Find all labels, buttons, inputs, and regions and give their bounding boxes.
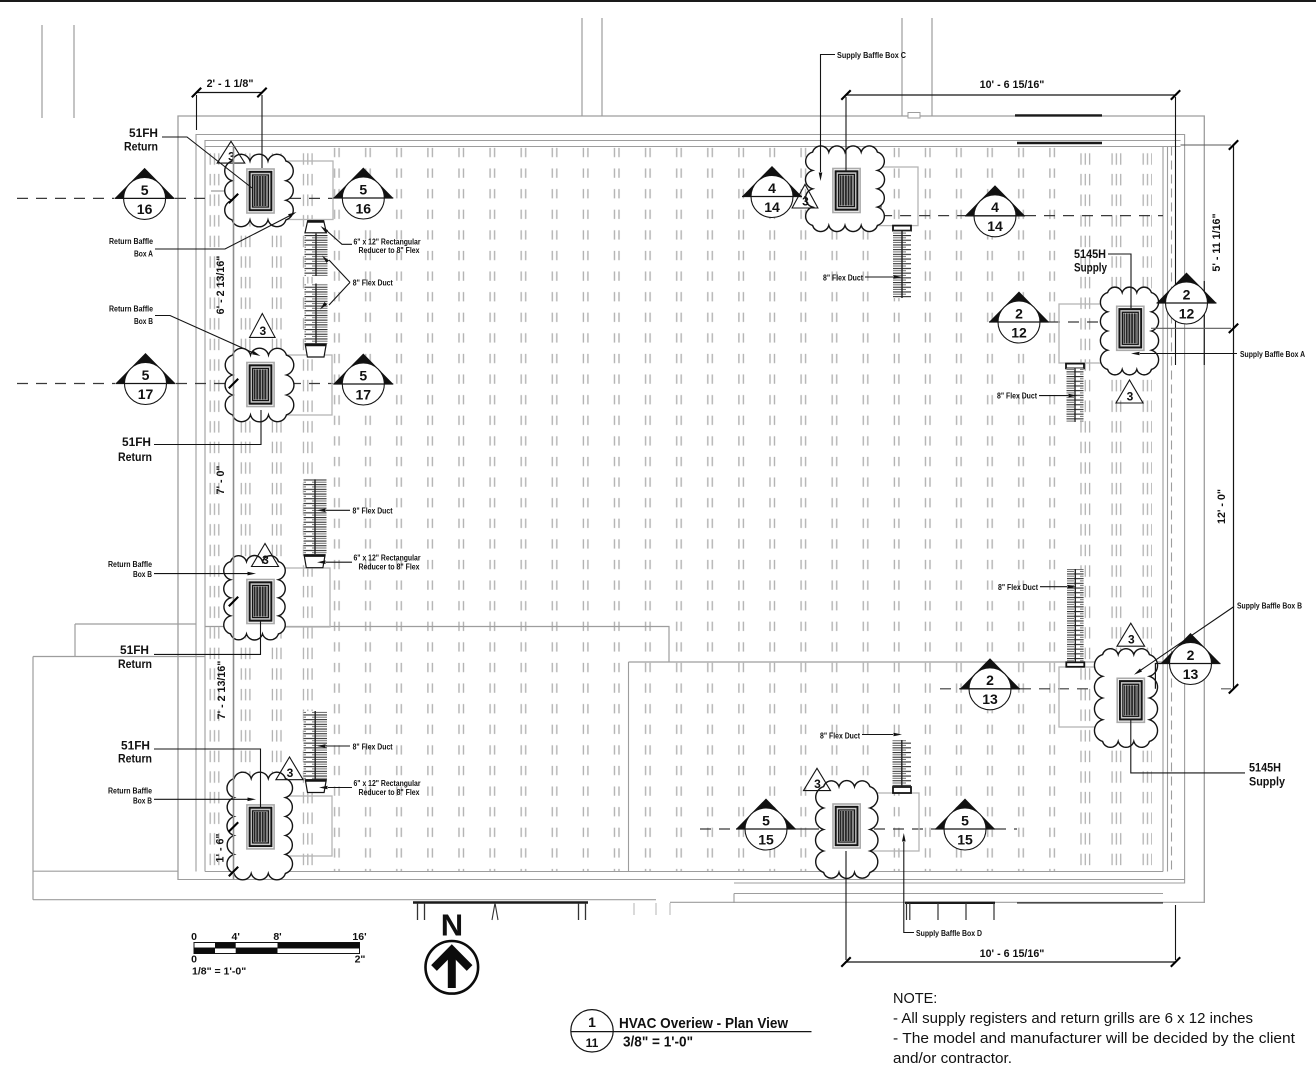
svg-text:3/8" = 1'-0": 3/8" = 1'-0" (623, 1034, 693, 1051)
svg-text:4: 4 (768, 180, 776, 196)
tick chain row4 (229, 822, 238, 831)
tick chain row2 (229, 379, 238, 388)
svg-text:Reducer to 8" Flex: Reducer to 8" Flex (359, 246, 420, 255)
revision cloud grille 3 (224, 556, 286, 640)
supply register 5145H box B louvres (1123, 684, 1139, 716)
supply register 5145H box A louvres (1122, 312, 1138, 344)
svg-text:51FH: 51FH (129, 126, 158, 140)
tag 4/14 right circle (974, 195, 1016, 237)
svg-text:3: 3 (1127, 390, 1134, 404)
dimension 10ft top extension right (1175, 97, 1177, 365)
svg-text:13: 13 (1183, 666, 1199, 682)
svg-text:51FH: 51FH (122, 435, 151, 449)
arrowhead flex F3 (317, 744, 326, 748)
supply register 5145H box D frame (836, 807, 858, 845)
arrowhead reducer 1 (321, 226, 329, 233)
wall line above plan right pair (902, 18, 932, 116)
arrowhead box B3 leader (248, 572, 257, 576)
svg-text:5: 5 (359, 181, 367, 197)
tag 5/17 left triangle (116, 353, 176, 384)
return grille 51FH row 4 frame (250, 808, 272, 846)
tick dim bottom right (1171, 957, 1180, 966)
svg-text:3: 3 (1128, 633, 1135, 647)
leader 5145H bottom (1131, 720, 1245, 773)
supply register 5145H box C louvres (839, 175, 855, 207)
tag 5/17 right triangle (333, 354, 393, 385)
arrowhead flex B (1068, 585, 1077, 589)
bottom wall segment right (734, 894, 1163, 904)
svg-text:10' - 6 15/16": 10' - 6 15/16" (980, 948, 1045, 960)
svg-text:1: 1 (588, 1014, 596, 1030)
tag 4/14 left line (742, 196, 802, 198)
vertical dimension right line (1233, 145, 1235, 689)
dimension 2ft 1-1/8in line (197, 92, 263, 94)
svg-text:3: 3 (262, 553, 269, 567)
svg-text:Return Baffle: Return Baffle (108, 787, 152, 796)
deck edge bottom centre (905, 902, 995, 904)
revision triangle 3 row 1 (217, 141, 245, 163)
svg-text:Box B: Box B (134, 317, 153, 326)
svg-text:2": 2" (355, 954, 366, 966)
svg-text:16: 16 (356, 200, 372, 216)
supply register 5145H box C frame (836, 171, 858, 209)
flex duct F3 (304, 711, 328, 779)
return grille 51FH row 2 flange (247, 363, 274, 407)
reducer R2 (6x12 rect to 8in flex) (305, 344, 326, 357)
tag 5/15 left line (736, 828, 796, 830)
tag 2/12 left circle (998, 301, 1040, 343)
centreline row 1 (17, 197, 114, 199)
revision triangle 3 box C (792, 184, 818, 208)
supply register 5145H box D louvres (839, 810, 855, 842)
svg-text:2' - 1 1/8": 2' - 1 1/8" (207, 78, 254, 90)
return grille 51FH row 2 frame (250, 365, 272, 403)
tag 4/14 right line (965, 215, 1025, 217)
svg-text:12: 12 (1179, 305, 1195, 321)
svg-text:15: 15 (957, 831, 973, 847)
svg-text:14: 14 (987, 218, 1003, 234)
tag 5/17 right circle (342, 363, 384, 405)
arrowhead box D leader (902, 833, 906, 842)
tag 2/13 right triangle (1161, 633, 1221, 664)
supply register 5145H box D flange (833, 804, 860, 848)
dimension 10ft 6-15/16in top line (846, 94, 1176, 96)
svg-text:12' - 0": 12' - 0" (1216, 489, 1228, 524)
leader 8in flex D (862, 734, 893, 736)
svg-text:7' - 2 13/16": 7' - 2 13/16" (216, 661, 228, 720)
wall notch top (908, 113, 920, 119)
svg-text:Return: Return (124, 140, 158, 154)
flex duct B (1067, 569, 1084, 662)
svg-text:2: 2 (986, 672, 994, 688)
flex collar A (1066, 364, 1084, 369)
tick right dim bottom (1229, 684, 1238, 693)
svg-text:12: 12 (1011, 324, 1027, 340)
reducer R4 (6x12 rect to 8in flex) (305, 780, 326, 793)
bottom wall segment dark (1017, 902, 1163, 904)
tick dim2 right (1171, 90, 1180, 99)
return baffle box A plenum (252, 161, 333, 220)
scale bar outline (194, 943, 360, 949)
svg-text:- All supply registers and ret: - All supply registers and return grills… (893, 1011, 1253, 1027)
centreline row C (804, 196, 881, 198)
tag 5/16 right triangle (333, 168, 393, 199)
centreline row B (940, 688, 960, 690)
supply register 5145H box B flange (1117, 678, 1144, 722)
deck hanger a (418, 903, 425, 920)
svg-text:4: 4 (991, 199, 999, 215)
ceiling grid frame (205, 146, 1181, 148)
svg-text:5: 5 (142, 367, 150, 383)
tick chain bottom (229, 867, 238, 876)
svg-text:Supply Baffle Box B: Supply Baffle Box B (1237, 602, 1302, 611)
tag 2/12 right triangle (1157, 273, 1217, 304)
svg-text:11: 11 (586, 1036, 599, 1050)
supply baffle box C plenum (830, 167, 918, 226)
leader Return Baffle Box B row 3 (154, 573, 250, 575)
svg-text:Return: Return (118, 657, 152, 671)
svg-text:8" Flex Duct: 8" Flex Duct (823, 274, 863, 283)
return grille 51FH row 3 louvres (253, 586, 269, 618)
svg-text:6" x 12" Rectangular: 6" x 12" Rectangular (354, 237, 421, 246)
title bubble line (571, 1031, 812, 1033)
tag 5/15 left triangle (736, 799, 796, 830)
plan wall line 3 (205, 141, 1181, 872)
svg-text:17: 17 (138, 386, 154, 402)
leader 8in flex B (1040, 586, 1067, 588)
interior zone line vertical (628, 662, 630, 872)
svg-text:Supply Baffle Box C: Supply Baffle Box C (837, 51, 906, 60)
svg-text:Box A: Box A (134, 250, 153, 259)
flex duct F1 lower (305, 284, 328, 344)
svg-text:1/8" = 1'-0": 1/8" = 1'-0" (192, 966, 246, 978)
supply register 5145H box C flange (833, 169, 860, 213)
revision cloud grille 2 (225, 348, 294, 422)
door opening marks bottom (634, 903, 670, 915)
svg-text:0: 0 (191, 954, 197, 966)
wall line above plan centre pair (582, 18, 602, 116)
arrowhead box A supply leader (1131, 352, 1140, 356)
wall dark segment right of box A (1203, 281, 1205, 365)
tag 2/12 right circle (1166, 282, 1208, 324)
leader 51FH row 4 (154, 749, 261, 807)
svg-text:Return Baffle: Return Baffle (109, 305, 153, 314)
supply register 5145H box A flange (1117, 306, 1144, 350)
leader 8in flex A (1039, 395, 1068, 397)
svg-text:6" x 12" Rectangular: 6" x 12" Rectangular (354, 779, 421, 788)
wall dashed line right (1171, 147, 1173, 872)
revision cloud grille 1 (225, 154, 294, 227)
svg-text:Return Baffle: Return Baffle (109, 237, 153, 246)
svg-text:5145H: 5145H (1074, 247, 1106, 261)
return grille 51FH row 1 flange (247, 169, 274, 213)
svg-text:16': 16' (352, 931, 366, 943)
revision cloud box B (1094, 649, 1157, 748)
leader Return Baffle Box B row 4 (154, 798, 250, 800)
dimension 10ft 6-15/16in bottom line (846, 961, 1176, 963)
bottom wall line (178, 879, 1185, 881)
tag 2/13 left triangle (960, 658, 1020, 689)
bottom outer wall left (33, 899, 656, 901)
leader 8in flex C (865, 276, 893, 278)
svg-text:13: 13 (982, 691, 998, 707)
return grille 51FH row 2 louvres (253, 369, 269, 401)
lower-left room top edge (33, 870, 178, 872)
svg-text:5145H: 5145H (1249, 761, 1281, 775)
north arrow glyph (448, 950, 456, 988)
tick dim1 left (192, 88, 201, 97)
north arrow circle (426, 941, 479, 994)
arrowhead reducer 2 (317, 560, 326, 564)
dimension 2ft 1-1/8in extensions (197, 95, 263, 168)
arrowhead box A leader (288, 212, 296, 218)
leader Return Baffle Box B row 2 (155, 316, 257, 355)
tick dim1 right (257, 88, 266, 97)
flex collar D (893, 787, 911, 793)
arrowhead flex A (1069, 394, 1078, 398)
return grille 51FH row 1 frame (250, 172, 272, 210)
interior soffit step line (205, 627, 1167, 663)
arrowhead flex D (894, 733, 903, 737)
tag 4/14 left circle (751, 176, 793, 218)
svg-text:5: 5 (141, 182, 149, 198)
leader 51FH row 1 (162, 137, 252, 188)
adjacent room lower-left wall (33, 624, 205, 900)
grid bottom edge (205, 871, 1163, 873)
flex collar B (1066, 662, 1084, 667)
svg-text:- The model and manufacturer w: - The model and manufacturer will be dec… (893, 1031, 1295, 1047)
dimension 10ft top extension left (into cloud C) (845, 97, 847, 172)
bottom outer wall right (670, 901, 1204, 903)
leader reducer 1 (327, 231, 352, 244)
centreline row A (1049, 321, 1103, 323)
svg-text:2: 2 (1183, 286, 1191, 302)
svg-text:Return: Return (118, 450, 152, 464)
revision triangle 3 row 3 (252, 544, 279, 567)
leader Supply Baffle Box A (1140, 353, 1237, 355)
vertical dimension chain left (233, 146, 235, 880)
supply register 5145H box A frame (1119, 309, 1141, 347)
deck hanger b (492, 903, 498, 920)
tick right dim top (1229, 140, 1238, 149)
tag 5/15 right circle (944, 808, 986, 850)
svg-text:5: 5 (762, 812, 770, 828)
svg-text:6' - 2 13/16": 6' - 2 13/16" (215, 256, 227, 315)
svg-text:Box B: Box B (133, 570, 152, 579)
tag 2/12 left triangle (989, 292, 1049, 323)
tag 5/16 left triangle (115, 168, 175, 199)
svg-text:8" Flex Duct: 8" Flex Duct (353, 507, 393, 516)
svg-text:5' - 11 1/16": 5' - 11 1/16" (1211, 213, 1223, 271)
revision cloud box A (1100, 287, 1158, 375)
svg-text:Reducer to 8" Flex: Reducer to 8" Flex (359, 563, 420, 572)
flex collar C (893, 226, 911, 231)
svg-text:15: 15 (758, 831, 774, 847)
tick chain row3 (229, 597, 238, 606)
svg-text:5: 5 (961, 812, 969, 828)
tag 2/13 left line (960, 688, 1020, 690)
revision cloud grille 4 (227, 772, 293, 880)
tag 2/13 left circle (969, 668, 1011, 710)
svg-text:Reducer to 8" Flex: Reducer to 8" Flex (359, 788, 420, 797)
svg-text:2: 2 (1187, 647, 1195, 663)
svg-text:3: 3 (814, 777, 821, 791)
tag 4/14 left triangle (742, 166, 802, 197)
svg-text:8" Flex Duct: 8" Flex Duct (353, 742, 393, 751)
wall line above plan left pair (42, 25, 74, 118)
centreline row D (700, 828, 736, 830)
scale bar black segments top (215, 943, 236, 949)
ceiling joist grid left band (triple dashes) (207, 147, 313, 871)
arrowhead flex F2 (317, 509, 326, 513)
svg-text:8" Flex Duct: 8" Flex Duct (997, 392, 1037, 401)
flex duct F2 (304, 479, 327, 554)
tag 5/16 right circle (342, 177, 384, 219)
arrowhead box B supply leader (1134, 669, 1142, 675)
tag 2/12 right line (1157, 302, 1217, 304)
ceiling joist grid right band (triple dashes) (1078, 147, 1152, 871)
revision triangle 3 box D (804, 768, 831, 790)
tag 5/15 right triangle (935, 799, 995, 830)
svg-text:14: 14 (764, 199, 780, 215)
svg-text:Supply: Supply (1249, 775, 1285, 789)
svg-text:4': 4' (232, 931, 240, 943)
tick dim2 left (841, 90, 850, 99)
leader 8in flex F1 (329, 260, 350, 305)
svg-text:8" Flex Duct: 8" Flex Duct (353, 279, 393, 288)
return grille 51FH row 3 frame (250, 582, 272, 620)
svg-text:3: 3 (287, 766, 294, 780)
revision triangle 3 row 2 (250, 314, 276, 338)
plan wall line 2 (196, 135, 1185, 884)
return baffle box B plenum row 2 (250, 355, 332, 415)
flex duct F1 upper (305, 234, 328, 277)
svg-text:Return Baffle: Return Baffle (108, 560, 152, 569)
leader Supply Baffle Box B (1141, 607, 1234, 671)
svg-text:Supply: Supply (1074, 261, 1107, 275)
right dim extension lines (1151, 145, 1231, 689)
revision triangle 3 box B (1117, 623, 1145, 646)
tag 5/16 left line (115, 197, 175, 199)
dimension 10ft bottom extensions (846, 851, 1176, 960)
svg-text:HVAC Overiew - Plan View: HVAC Overiew - Plan View (619, 1015, 788, 1032)
tick dim bottom left (841, 957, 850, 966)
leader Supply Baffle Box C (821, 55, 836, 173)
supply baffle box A plenum (1059, 304, 1150, 363)
tag 5/17 right line (333, 383, 393, 385)
svg-text:8" Flex Duct: 8" Flex Duct (820, 732, 860, 741)
reducer R1 (6x12 rect to 8in flex) (305, 221, 326, 233)
deck hanger d (907, 903, 995, 920)
return grille 51FH row 4 flange (247, 805, 274, 849)
tag 5/17 left circle (125, 363, 167, 405)
flex duct D (893, 740, 912, 787)
tag 5/16 left circle (124, 177, 166, 219)
title bubble circle (571, 1010, 613, 1052)
tag 4/14 right triangle (965, 185, 1025, 216)
leader Return Baffle Box A (155, 214, 293, 249)
leader Supply Baffle Box D (904, 842, 914, 933)
return grille 51FH row 1 louvres (253, 175, 269, 207)
deck hanger c (579, 903, 586, 920)
tick chain row1 (229, 194, 238, 203)
revision triangle 3 box A (1116, 380, 1143, 403)
svg-text:7' - 0": 7' - 0" (215, 466, 227, 495)
svg-text:5: 5 (359, 367, 367, 383)
sheet top border (0, 0, 1316, 2)
svg-text:6" x 12" Rectangular: 6" x 12" Rectangular (354, 554, 421, 563)
leader 8in flex F3 (326, 745, 350, 747)
svg-text:0: 0 (191, 931, 197, 943)
arrowhead box B4 leader (248, 798, 257, 802)
arrowhead reducer 3 (319, 786, 328, 790)
svg-text:Return: Return (118, 752, 152, 766)
arrowhead flex F1 up (322, 256, 329, 263)
tag 2/13 right line (1161, 663, 1221, 665)
svg-text:8': 8' (273, 931, 281, 943)
svg-text:Supply Baffle Box A: Supply Baffle Box A (1240, 350, 1305, 359)
link line row B step (1155, 664, 1161, 689)
tag 5/15 left circle (745, 808, 787, 850)
arrowhead box C leader (819, 173, 823, 182)
tag 2/13 right circle (1170, 643, 1212, 685)
supply baffle box D plenum (828, 793, 919, 851)
reducer R3 (6x12 rect to 8in flex) (304, 555, 325, 568)
svg-text:8" Flex Duct: 8" Flex Duct (998, 583, 1038, 592)
svg-text:10' - 6 15/16": 10' - 6 15/16" (980, 79, 1045, 91)
svg-text:51FH: 51FH (120, 643, 149, 657)
svg-text:2: 2 (1015, 305, 1023, 321)
return grille 51FH row 3 flange (247, 580, 274, 624)
svg-text:NOTE:: NOTE: (893, 991, 937, 1007)
ceiling joist grid centre band (double dashes) (332, 147, 1056, 871)
return baffle box B plenum row 4 (250, 796, 332, 856)
revision cloud box C (805, 146, 884, 232)
centreline row 2 (17, 383, 115, 385)
svg-text:Supply Baffle Box D: Supply Baffle Box D (916, 929, 982, 938)
arrowhead flex F1 down (320, 302, 327, 310)
leader 8in flex F2 (326, 509, 350, 511)
revision cloud box D (816, 781, 878, 879)
svg-text:3: 3 (259, 324, 266, 338)
return grille 51FH row 4 louvres (253, 811, 269, 843)
leader reducer 2 (326, 561, 352, 563)
leader 51FH row 3 (154, 621, 261, 654)
svg-text:16: 16 (137, 201, 153, 217)
svg-text:51FH: 51FH (121, 739, 150, 753)
tag 2/12 left line (989, 321, 1049, 323)
tag 5/16 right line (333, 197, 393, 199)
flex duct A (1067, 368, 1084, 422)
tick right dim mid (1229, 324, 1238, 333)
svg-text:17: 17 (356, 386, 372, 402)
return baffle box B plenum row 3 (250, 568, 330, 627)
scale bar black segments bottom (194, 948, 215, 954)
plan outer boundary (178, 116, 1204, 903)
supply baffle box B plenum (1059, 667, 1141, 727)
arrowhead flex C (894, 275, 903, 279)
leader 5145H top (1108, 254, 1131, 308)
beam dark segment top right a (1015, 114, 1102, 116)
svg-text:1' - 6": 1' - 6" (215, 834, 227, 863)
revision triangle 3 row 4 (276, 757, 303, 780)
svg-text:N: N (441, 908, 463, 943)
leader 51FH row 2 (154, 410, 261, 445)
tag 5/17 left line (116, 383, 176, 385)
flex duct C (893, 231, 911, 298)
tag 5/15 right line (935, 828, 995, 830)
svg-text:and/or contractor.: and/or contractor. (893, 1051, 1012, 1067)
